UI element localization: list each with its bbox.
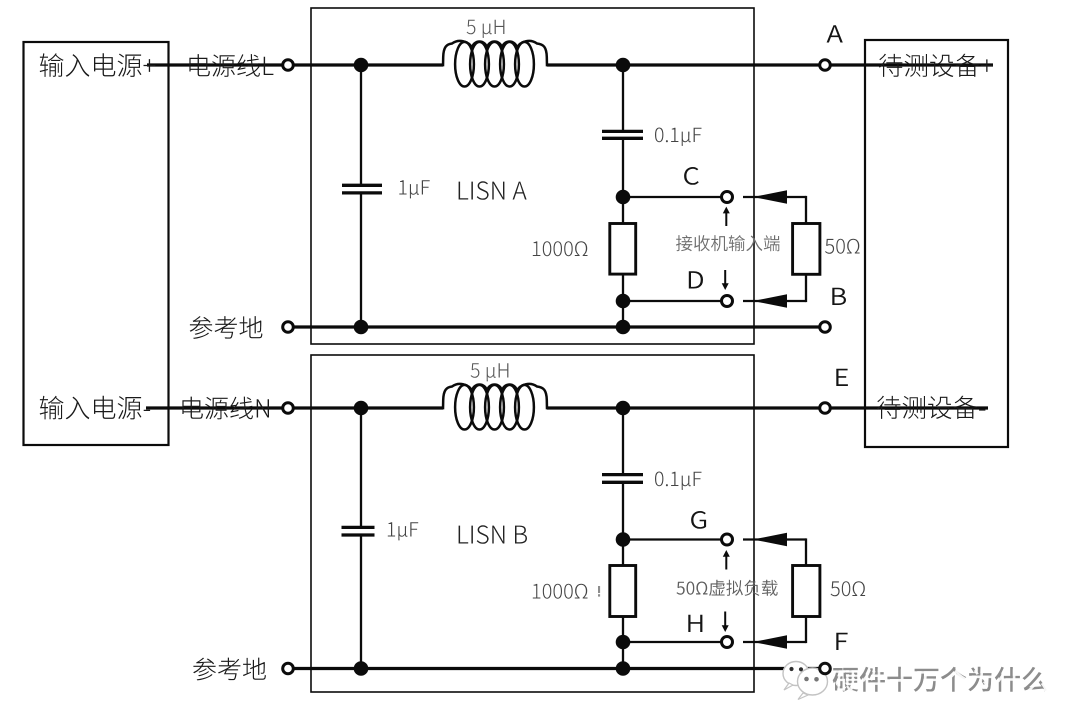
wire: power line N from input to coil <box>146 406 443 409</box>
junction node: C row (LISN A) <box>616 190 631 205</box>
wire: node to terminal G (LISN B) <box>623 538 722 540</box>
terminal: ground input (top) <box>283 322 294 333</box>
arrowhead into terminal H <box>753 635 787 649</box>
capacitor C3 1uF plates (LISN B) <box>342 527 375 535</box>
label 5 uH (LISN A) <box>467 20 505 38</box>
label 电源线L <box>189 54 273 77</box>
capacitor C4 0.1uF plates (LISN B) <box>602 475 643 483</box>
terminal H <box>722 637 733 648</box>
wire: power line L from coil to DUT terminal A <box>547 63 993 66</box>
resistor R2 50 ohm body (LISN A) <box>793 224 820 275</box>
terminal D <box>722 296 733 307</box>
wire: 0.1uF to node G row (LISN B) <box>622 484 624 567</box>
wire: 0.1uF branch upper stem (LISN B) <box>622 408 624 473</box>
arrowhead into terminal C <box>753 190 787 204</box>
label 1uF (LISN A) <box>399 180 429 198</box>
label reference ground 参考地 (top) <box>190 316 263 339</box>
wire: 1uF branch upper stem (LISN A) <box>360 65 362 184</box>
watermark text 硬件十万个为什么 <box>833 667 1050 695</box>
junction node: L row at 1uF branch (LISN A) <box>354 58 369 73</box>
wire: 50 ohm bottom to terminal D (LISN A) <box>743 274 806 302</box>
junction node: N row at 1uF branch (LISN B) <box>354 401 369 416</box>
watermark logo chat bubble (front) <box>798 668 828 700</box>
label 待测设备- <box>877 396 986 419</box>
capacitor C1 1uF plates (LISN A) <box>342 185 382 193</box>
wire: 1uF branch lower stem (LISN B) <box>360 536 362 668</box>
label reference ground 参考地 (bottom) <box>193 658 266 681</box>
dummy load up-arrow (LISN B) <box>723 550 730 570</box>
terminal G <box>722 534 733 545</box>
wire: resistor R1 bottom to ground row (LISN A) <box>622 274 624 327</box>
terminal E <box>820 403 831 414</box>
LISN A enclosure box <box>311 8 754 344</box>
wire: reference ground row (LISN B) <box>288 667 825 670</box>
terminal A <box>820 60 831 71</box>
wire: power line L from input to coil <box>147 63 443 66</box>
junction node: ground row at 1uF (LISN B) <box>354 661 369 676</box>
junction node: ground row at 1uF (LISN A) <box>354 320 369 335</box>
label 1000 ohm (LISN A) <box>533 241 588 256</box>
label 50 ohm (LISN B) <box>831 581 866 596</box>
node label B <box>832 288 846 305</box>
wire: power line N from coil to DUT terminal E <box>547 406 988 409</box>
wire: terminal G to 50 ohm top (LISN B) <box>743 538 806 566</box>
device under test box (待测设备) <box>865 40 1008 447</box>
capacitor C2 0.1uF plates (LISN A) <box>602 131 643 138</box>
junction node: N row at 0.1uF branch (LISN B) <box>616 401 631 416</box>
node label F <box>836 633 847 650</box>
arrowhead into terminal G <box>753 533 787 547</box>
wire: 0.1uF branch upper stem (LISN A) <box>622 65 624 130</box>
label 50 ohm dummy load 50Ω虚拟负载 <box>677 580 778 596</box>
wire: node to terminal H (LISN B) <box>623 641 722 643</box>
terminal F <box>820 663 831 674</box>
inductor L2 5uH (LISN B) coil <box>443 384 547 430</box>
label 1uF (LISN B) <box>388 522 418 540</box>
junction node: ground row at resistor (LISN A) <box>616 320 631 335</box>
watermark logo eyes (back bubble) <box>789 667 803 672</box>
junction node: G row (LISN B) <box>616 532 631 547</box>
label 0.1uF (LISN A) <box>655 128 702 146</box>
label 1000 ohm (LISN B) <box>533 584 588 599</box>
dummy load down-arrow (LISN B) <box>722 612 729 633</box>
terminal: power line N input <box>283 403 294 414</box>
watermark logo chat bubble (back) <box>783 662 809 691</box>
receiver input down-arrow (LISN A) <box>722 270 729 290</box>
label LISN A <box>459 181 527 200</box>
arrowhead into terminal D <box>753 294 787 308</box>
label 50 ohm (LISN A) <box>825 239 860 254</box>
label 0.1uF (LISN B) <box>655 472 702 490</box>
wire: terminal C to 50 ohm top (LISN A) <box>743 196 806 225</box>
label 电源线N <box>182 397 269 420</box>
junction node: L row at 0.1uF branch (LISN A) <box>616 58 631 73</box>
terminal: power line L input <box>283 60 294 71</box>
wire: 50 ohm bottom to terminal H (LISN B) <box>743 617 806 644</box>
node label G <box>691 511 706 529</box>
label 输入电源+ <box>40 53 156 77</box>
wire: 1uF branch upper stem (LISN B) <box>360 408 362 526</box>
inductor L1 5uH (LISN A) coil <box>443 41 547 87</box>
wire: node to terminal D (LISN A) <box>623 300 722 302</box>
wire: 1uF branch lower stem (LISN A) <box>360 194 362 327</box>
terminal: ground input (bottom) <box>283 663 294 674</box>
wire: 0.1uF to node C row (LISN A) <box>622 140 624 225</box>
wire: node to terminal C (LISN A) <box>623 196 722 198</box>
terminal C <box>722 192 733 203</box>
input power source box (输入电源) <box>24 42 169 445</box>
terminal B <box>820 322 831 333</box>
stray mark after 1000 ohm label <box>598 586 600 597</box>
node label C <box>684 167 699 185</box>
label 5 uH (LISN B) <box>471 363 509 381</box>
receiver input up-arrow (LISN A) <box>723 207 730 226</box>
node label H <box>688 615 702 632</box>
junction node: ground row at resistor (LISN B) <box>616 661 631 676</box>
label 输入电源- <box>40 396 150 420</box>
node label A <box>827 25 843 42</box>
label receiver input 接收机输入端 <box>676 235 780 251</box>
LISN B enclosure box <box>311 355 754 692</box>
resistor R1 1000 ohm body (LISN A) <box>610 224 636 275</box>
resistor R4 50 ohm body (LISN B) <box>793 566 820 617</box>
junction node: D row (LISN A) <box>616 294 631 309</box>
wire: reference ground row (LISN A) <box>288 325 825 328</box>
wire: resistor R3 bottom to ground row (LISN B) <box>622 617 624 669</box>
node label E <box>836 369 848 386</box>
node label D <box>689 271 703 288</box>
label LISN B <box>459 525 527 544</box>
label 待测设备+ <box>879 54 993 77</box>
resistor R3 1000 ohm body (LISN B) <box>610 566 636 617</box>
watermark logo eyes (front bubble) <box>804 677 819 682</box>
junction node: H row (LISN B) <box>616 635 631 650</box>
